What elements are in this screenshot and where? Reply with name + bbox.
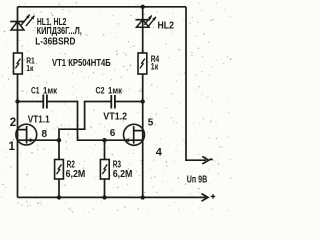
svg-text:VT1.2: VT1.2: [103, 112, 127, 123]
svg-text:1: 1: [9, 141, 16, 153]
svg-text:2: 2: [10, 117, 16, 129]
svg-text:Uп 9В: Uп 9В: [187, 175, 207, 186]
svg-text:1к: 1к: [151, 61, 159, 71]
svg-text:C2: C2: [96, 86, 105, 96]
svg-text:C1: C1: [31, 86, 40, 96]
svg-text:6,2М: 6,2М: [66, 168, 86, 180]
svg-text:1мк: 1мк: [43, 86, 57, 96]
svg-text:VT1 КР504НТ4Б: VT1 КР504НТ4Б: [52, 57, 111, 69]
svg-text:6: 6: [110, 128, 116, 139]
svg-text:4: 4: [156, 146, 163, 158]
svg-text:8: 8: [42, 129, 48, 140]
svg-text:1мк: 1мк: [108, 86, 122, 96]
svg-text:5: 5: [148, 117, 154, 128]
svg-text:HL2: HL2: [158, 20, 175, 32]
svg-text:1к: 1к: [26, 63, 34, 73]
svg-text:VT1.1: VT1.1: [28, 115, 50, 126]
svg-text:6,2М: 6,2М: [113, 168, 133, 180]
svg-text:L-36BSRD: L-36BSRD: [35, 36, 75, 48]
